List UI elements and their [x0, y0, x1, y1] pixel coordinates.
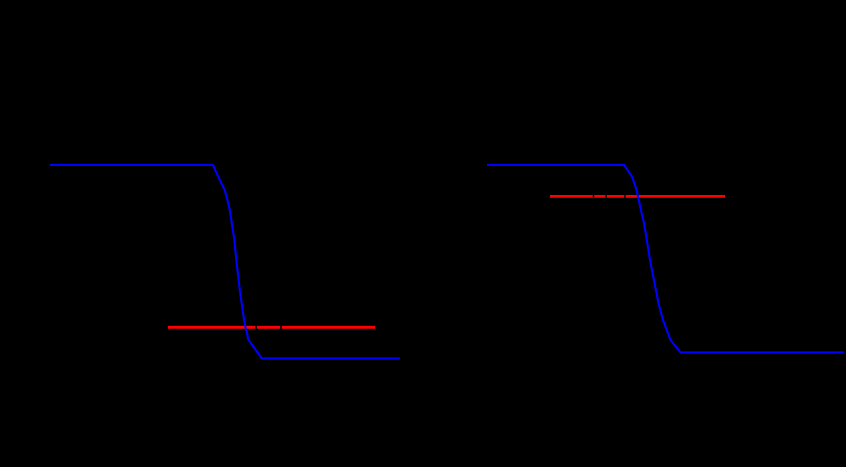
left red threshold line (segmented)	[168, 326, 375, 329]
right blue R(T) transition curve	[487, 165, 844, 352]
left blue R(T) transition curve	[50, 165, 400, 358]
right red threshold line (segmented)	[550, 195, 725, 198]
